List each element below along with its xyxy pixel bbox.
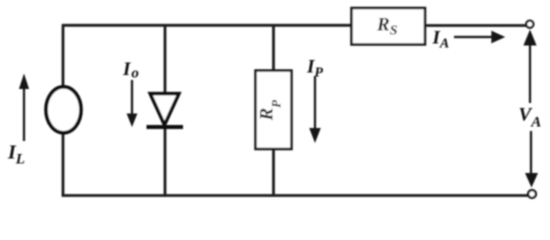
svg-text:IA: IA [432, 28, 450, 52]
svg-text:Io: Io [122, 59, 139, 82]
svg-text:IL: IL [7, 142, 25, 168]
svg-text:VA: VA [519, 105, 542, 131]
svg-text:IP: IP [306, 57, 323, 81]
